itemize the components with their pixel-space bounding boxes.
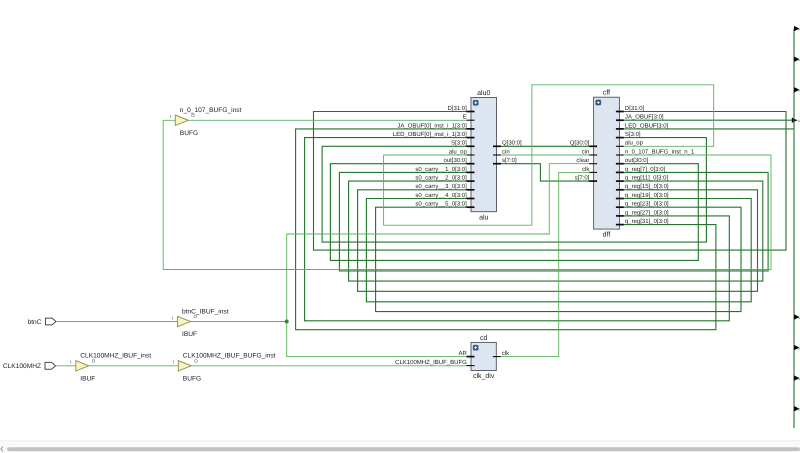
svg-text:s: s bbox=[798, 57, 800, 62]
wire net q_reg[27]_0 -> LED_OBUF input bbox=[305, 138, 730, 321]
module cff (dff) bbox=[594, 97, 620, 229]
svg-text:Q[30:0]: Q[30:0] bbox=[570, 140, 590, 147]
svg-text:alu_op: alu_op bbox=[625, 140, 644, 147]
svg-text:S[3:0]: S[3:0] bbox=[451, 140, 467, 147]
buffer U4 CLK100MHZ_IBUF_BUFG_inst BUFG bbox=[178, 361, 191, 371]
svg-text:s[7:0]: s[7:0] bbox=[575, 175, 590, 182]
wire net n_0_107_BUFG_inst_n_1 dff->BUFG bbox=[163, 120, 771, 269]
svg-text:BUFG: BUFG bbox=[183, 375, 201, 382]
wire net q_reg[31]_0 -> JA_OBUF input bbox=[296, 129, 716, 330]
wire net LED_OBUF[3:0] to right edge bbox=[624, 128, 794, 130]
input port btnC bbox=[46, 318, 57, 325]
wire net S[3:0] feedback dff->alu bbox=[322, 138, 706, 243]
svg-text:n_0_107_BUFG_inst_n_1: n_0_107_BUFG_inst_n_1 bbox=[625, 148, 695, 155]
svg-text:LED_OBUF[3:0]: LED_OBUF[3:0] bbox=[625, 122, 669, 129]
svg-text:clk_div: clk_div bbox=[473, 372, 495, 380]
buffer U2 btnC_IBUF_inst IBUF bbox=[178, 316, 191, 326]
wire net Q[30:0] alu->dff bbox=[501, 145, 589, 147]
svg-text:IBUF: IBUF bbox=[80, 375, 95, 382]
pin arrow right edge bbox=[794, 375, 800, 380]
svg-text:q_reg[19]_0[3:0]: q_reg[19]_0[3:0] bbox=[625, 192, 669, 199]
svg-text:CLK100MHZ_IBUF_inst: CLK100MHZ_IBUF_inst bbox=[80, 353, 151, 360]
svg-text:clear: clear bbox=[576, 157, 589, 164]
svg-text:clk: clk bbox=[582, 166, 590, 173]
svg-text:LED_OBUF[0]_inst_i_1[3:0]: LED_OBUF[0]_inst_i_1[3:0] bbox=[393, 131, 467, 138]
wire net q_reg[7]_0 -> s0_carry__1 bbox=[339, 172, 768, 271]
pin arrow right edge bbox=[794, 87, 800, 92]
wire net D[31:0] feedback dff->alu bbox=[314, 112, 787, 251]
pin arrow right edge bbox=[794, 57, 800, 62]
svg-text:JA_OBUF[3:0]: JA_OBUF[3:0] bbox=[625, 114, 664, 121]
wire net alu_op dff->alu (top route) bbox=[384, 85, 714, 225]
wire net btnC_IBUF IBUF->junction bbox=[191, 321, 287, 323]
svg-text:n_0_107_BUFG_inst: n_0_107_BUFG_inst bbox=[180, 107, 242, 114]
svg-text:cin: cin bbox=[582, 148, 590, 155]
svg-text:s: s bbox=[798, 26, 800, 31]
svg-text:s0_carry__2_0[3:0]: s0_carry__2_0[3:0] bbox=[415, 175, 467, 182]
horizontal scrollbar bbox=[0, 441, 800, 453]
wire net q_reg[11]_0 -> s0_carry__2 bbox=[349, 181, 763, 281]
wire net q_reg[19]_0 -> s0_carry__4 bbox=[366, 199, 751, 302]
svg-text:alu_op: alu_op bbox=[449, 148, 468, 155]
wire net btnC port->IBUF bbox=[56, 321, 178, 323]
svg-text:q_reg[31]_0[3:0]: q_reg[31]_0[3:0] bbox=[625, 218, 669, 225]
svg-text:CLK100MHZ: CLK100MHZ bbox=[3, 363, 41, 370]
svg-text:s: s bbox=[798, 376, 800, 381]
svg-text:D[31:0]: D[31:0] bbox=[447, 105, 467, 112]
pin arrow right edge bbox=[794, 345, 800, 350]
svg-text:out[30:0]: out[30:0] bbox=[625, 157, 649, 164]
input port CLK100MHZ bbox=[45, 362, 56, 369]
svg-text:btnC_IBUF_inst: btnC_IBUF_inst bbox=[182, 308, 229, 315]
svg-text:out[30:0]: out[30:0] bbox=[443, 157, 467, 164]
svg-text:E: E bbox=[463, 114, 467, 121]
svg-text:BUFG: BUFG bbox=[180, 130, 198, 137]
svg-text:s: s bbox=[798, 345, 800, 350]
wire net JA_OBUF[3:0] to right edge bbox=[624, 119, 792, 121]
svg-text:I: I bbox=[170, 114, 171, 119]
svg-text:alu: alu bbox=[479, 213, 488, 221]
module alu0 (alu) bbox=[471, 98, 497, 212]
svg-text:Q[30:0]: Q[30:0] bbox=[502, 140, 522, 147]
svg-text:s: s bbox=[798, 88, 800, 93]
wire net CLK100MHZ_IBUF IBUF->BUFG bbox=[89, 365, 178, 367]
pin arrow right edge bbox=[794, 406, 800, 411]
wire net q_reg[15]_0 -> s0_carry__3 bbox=[358, 190, 758, 291]
wire net s[7:0] alu->dff bbox=[501, 164, 589, 181]
pin arrow right edge bbox=[794, 26, 800, 31]
buffer U3 CLK100MHZ_IBUF_inst IBUF bbox=[76, 361, 89, 371]
wire net cin alu->dff bbox=[501, 154, 589, 156]
svg-text:CLK100MHZ_IBUF_BUFG_inst: CLK100MHZ_IBUF_BUFG_inst bbox=[183, 353, 276, 360]
svg-text:dff: dff bbox=[603, 231, 611, 239]
pin arrow JA_OBUF bbox=[792, 118, 798, 123]
svg-text:CLK100MHZ_IBUF_BUFG: CLK100MHZ_IBUF_BUFG bbox=[395, 359, 467, 366]
wire net CLK100MHZ_IBUF_BUFG BUFG->cd bbox=[192, 365, 467, 367]
wire net q_reg[23]_0 -> s0_carry__5 bbox=[376, 207, 741, 311]
svg-text:s: s bbox=[798, 407, 800, 412]
svg-text:JA_OBUF[0]_inst_i_1[3:0]: JA_OBUF[0]_inst_i_1[3:0] bbox=[397, 122, 467, 129]
pin arrow right edge bbox=[794, 314, 800, 319]
svg-text:q_reg[27]_0[3:0]: q_reg[27]_0[3:0] bbox=[625, 209, 669, 216]
svg-text:S[3:0]: S[3:0] bbox=[625, 131, 641, 138]
wire net out[30:0] feedback dff->alu bbox=[330, 164, 698, 261]
buffer U1 n_0_107_BUFG_inst BUFG bbox=[175, 115, 188, 125]
svg-text:cff: cff bbox=[603, 89, 610, 97]
svg-text:q_reg[7]_0[3:0]: q_reg[7]_0[3:0] bbox=[625, 166, 666, 173]
junction btnC_IBUF node bbox=[285, 320, 289, 324]
svg-text:q_reg[23]_0[3:0]: q_reg[23]_0[3:0] bbox=[625, 201, 669, 208]
wire net btnC_IBUF junction->clear bbox=[287, 164, 589, 322]
wire net E (BUFG out -> alu E) bbox=[189, 119, 467, 121]
svg-text:q_reg[11]_0[3:0]: q_reg[11]_0[3:0] bbox=[625, 175, 669, 182]
svg-text:D[31:0]: D[31:0] bbox=[625, 105, 645, 112]
svg-text:s0_carry__3_0[3:0]: s0_carry__3_0[3:0] bbox=[415, 183, 467, 190]
svg-text:cin: cin bbox=[502, 148, 510, 155]
svg-text:s0_carry__5_0[3:0]: s0_carry__5_0[3:0] bbox=[415, 201, 467, 208]
svg-text:s[7:0]: s[7:0] bbox=[502, 157, 517, 164]
svg-text:btnC: btnC bbox=[28, 319, 42, 326]
svg-text:cd: cd bbox=[480, 334, 488, 342]
svg-text:I: I bbox=[173, 360, 174, 365]
wire net clk cd->dff bbox=[501, 172, 589, 356]
svg-text:s0_carry__4_0[3:0]: s0_carry__4_0[3:0] bbox=[415, 192, 467, 199]
svg-text:I: I bbox=[172, 315, 173, 320]
wire net CLK100MHZ port->IBUF bbox=[56, 365, 76, 367]
svg-text:AR: AR bbox=[458, 350, 467, 357]
svg-text:I: I bbox=[70, 360, 71, 365]
wire net btnC_IBUF junction->cd AR bbox=[287, 322, 467, 357]
svg-text:s0_carry__1_0[3:0]: s0_carry__1_0[3:0] bbox=[415, 166, 467, 173]
svg-text:s: s bbox=[798, 118, 800, 123]
svg-text:s: s bbox=[798, 315, 800, 320]
svg-text:IBUF: IBUF bbox=[182, 331, 197, 338]
svg-text:clk: clk bbox=[502, 350, 510, 357]
svg-text:alu0: alu0 bbox=[477, 89, 490, 97]
svg-text:q_reg[15]_0[3:0]: q_reg[15]_0[3:0] bbox=[625, 183, 669, 190]
wire right edge vertical net bbox=[793, 29, 795, 428]
module cd (clk_div) bbox=[471, 342, 496, 370]
